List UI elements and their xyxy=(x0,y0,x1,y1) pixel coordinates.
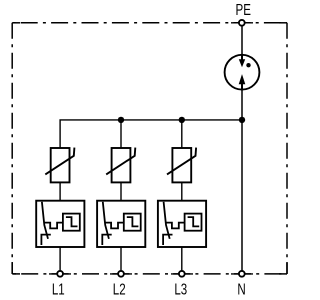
svg-text:L2: L2 xyxy=(113,281,126,298)
svg-text:L3: L3 xyxy=(174,281,187,298)
svg-text:PE: PE xyxy=(235,2,250,19)
svg-text:N: N xyxy=(237,281,245,298)
svg-text:L1: L1 xyxy=(52,281,65,298)
